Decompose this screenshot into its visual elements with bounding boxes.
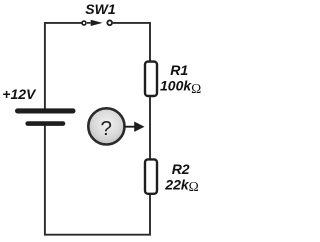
resistor R1 [145,62,157,96]
resistor R2 [145,159,157,193]
svg-text:+12V: +12V [2,86,37,102]
wire: left vertical + top to switch [45,23,82,109]
svg-text:R2: R2 [172,161,190,177]
svg-text:SW1: SW1 [85,1,116,17]
battery +12V (top long plate) [15,108,76,113]
wire: R2 bottom, bottom run, left vertical up to battery [45,125,150,234]
unknown meter ? (circle) [88,108,124,144]
probe arrow line [124,126,135,128]
battery +12V (bottom short plate) [25,121,65,126]
wire: switch to top-right corner down to R1 top [113,23,150,61]
switch SW1 [82,20,112,26]
svg-text:?: ? [101,117,112,140]
probe arrow head [134,122,144,132]
svg-text:R1: R1 [170,62,188,78]
wire: R1 bottom to R2 top (node segment) [149,97,151,160]
svg-text:100kΩ: 100kΩ [160,77,201,96]
svg-text:22kΩ: 22kΩ [164,176,198,194]
